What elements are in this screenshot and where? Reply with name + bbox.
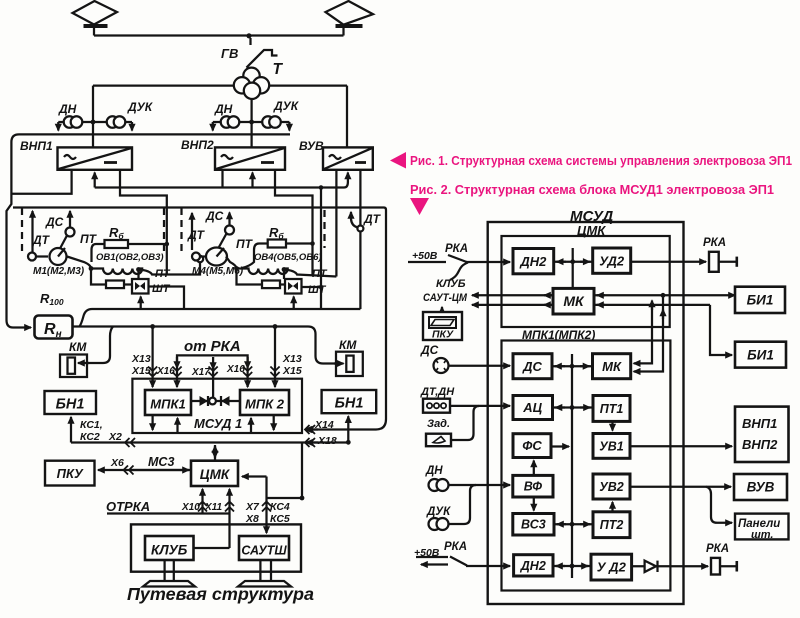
svg-text:ДТ: ДТ bbox=[363, 212, 382, 226]
svg-text:МПК 2: МПК 2 bbox=[245, 397, 285, 412]
svg-text:М4(М5,М6): М4(М5,М6) bbox=[192, 266, 244, 277]
svg-text:Рис. 1. Структурная схема сист: Рис. 1. Структурная схема системы управл… bbox=[410, 154, 792, 168]
svg-text:У Д2: У Д2 bbox=[597, 559, 627, 574]
svg-text:Х7: Х7 bbox=[245, 501, 260, 513]
svg-text:ВНП1: ВНП1 bbox=[20, 139, 53, 153]
svg-text:Rб: Rб bbox=[109, 225, 124, 241]
svg-text:САУТШ: САУТШ bbox=[241, 544, 287, 558]
svg-text:ДУК: ДУК bbox=[426, 506, 451, 518]
svg-text:М1(М2,М3): М1(М2,М3) bbox=[33, 266, 85, 277]
svg-text:ПТ2: ПТ2 bbox=[600, 518, 624, 532]
svg-text:Х18: Х18 bbox=[317, 435, 337, 447]
svg-text:ДН2: ДН2 bbox=[519, 254, 547, 269]
svg-text:ШТ: ШТ bbox=[152, 283, 171, 295]
svg-text:УВ1: УВ1 bbox=[599, 439, 623, 453]
svg-text:ДС: ДС bbox=[420, 343, 439, 357]
svg-text:КС1,: КС1, bbox=[80, 419, 103, 431]
svg-text:Зад.: Зад. bbox=[427, 418, 450, 430]
svg-text:Х8: Х8 bbox=[245, 513, 259, 525]
svg-text:ПТ: ПТ bbox=[236, 237, 254, 251]
svg-text:Х2: Х2 bbox=[108, 431, 122, 443]
svg-text:Х10: Х10 bbox=[181, 502, 200, 513]
svg-text:КЛУБ: КЛУБ bbox=[436, 278, 466, 290]
svg-text:БИ1: БИ1 bbox=[747, 348, 774, 363]
svg-text:ПКУ: ПКУ bbox=[57, 466, 84, 481]
svg-text:ДС: ДС bbox=[205, 209, 224, 223]
svg-text:Т: Т bbox=[273, 61, 284, 78]
svg-text:ПТ1: ПТ1 bbox=[600, 402, 624, 416]
svg-text:ОВ1(ОВ2,ОВ3): ОВ1(ОВ2,ОВ3) bbox=[96, 252, 164, 263]
svg-text:ДУК: ДУК bbox=[127, 100, 154, 114]
svg-text:ДН2: ДН2 bbox=[520, 559, 546, 573]
svg-text:РКА: РКА bbox=[706, 543, 729, 555]
svg-text:ВУВ: ВУВ bbox=[299, 139, 324, 153]
svg-text:КМ: КМ bbox=[69, 340, 87, 354]
svg-text:ЦМК: ЦМК bbox=[200, 467, 231, 482]
svg-text:Х15: Х15 bbox=[282, 365, 302, 377]
svg-text:ДС: ДС bbox=[45, 215, 64, 229]
svg-text:КЛУБ: КЛУБ bbox=[151, 543, 188, 558]
svg-text:ВНП2: ВНП2 bbox=[181, 138, 214, 152]
svg-text:Rб: Rб bbox=[269, 225, 284, 241]
svg-text:ОВ4(ОВ5,ОВ6): ОВ4(ОВ5,ОВ6) bbox=[254, 252, 322, 263]
svg-text:ОТРКА: ОТРКА bbox=[106, 499, 150, 514]
svg-text:ФС: ФС bbox=[522, 438, 542, 453]
svg-text:КС2: КС2 bbox=[80, 431, 100, 443]
svg-text:ВНП1: ВНП1 bbox=[742, 416, 777, 431]
svg-text:Х13: Х13 bbox=[282, 353, 302, 365]
svg-text:ПКУ: ПКУ bbox=[432, 329, 454, 341]
svg-text:+50В: +50В bbox=[414, 547, 440, 559]
svg-text:КС4: КС4 bbox=[270, 501, 290, 513]
svg-text:Х6: Х6 bbox=[110, 457, 124, 469]
svg-text:Х16: Х16 bbox=[156, 366, 175, 377]
svg-text:БН1: БН1 bbox=[335, 396, 364, 412]
svg-text:ДН: ДН bbox=[425, 465, 443, 477]
svg-text:Рис. 2. Структурная схема блок: Рис. 2. Структурная схема блока МСУД1 эл… bbox=[410, 183, 774, 197]
svg-text:ГВ: ГВ bbox=[221, 46, 238, 61]
svg-text:ДТ: ДТ bbox=[32, 233, 51, 247]
svg-text:Х14: Х14 bbox=[314, 419, 334, 431]
svg-text:ПТ: ПТ bbox=[155, 268, 171, 280]
svg-text:РКА: РКА bbox=[445, 243, 468, 255]
svg-text:Х17: Х17 bbox=[191, 367, 210, 378]
svg-text:УД2: УД2 bbox=[599, 254, 625, 269]
svg-text:ВФ: ВФ bbox=[524, 480, 543, 494]
svg-text:МК: МК bbox=[563, 293, 585, 309]
svg-text:КС5: КС5 bbox=[270, 513, 290, 525]
svg-text:ВС3: ВС3 bbox=[521, 518, 546, 532]
svg-text:КМ: КМ bbox=[339, 338, 357, 352]
svg-text:шт.: шт. bbox=[751, 529, 773, 541]
svg-text:ДУК: ДУК bbox=[273, 99, 300, 113]
svg-text:Х11: Х11 bbox=[204, 502, 222, 513]
svg-text:ПТ: ПТ bbox=[80, 232, 98, 246]
svg-text:Х15: Х15 bbox=[131, 365, 151, 377]
svg-text:ДТ: ДТ bbox=[187, 228, 206, 242]
svg-text:Х13: Х13 bbox=[131, 353, 151, 365]
svg-text:МС3: МС3 bbox=[148, 455, 174, 469]
svg-text:R100: R100 bbox=[40, 291, 64, 307]
svg-text:ВУВ: ВУВ bbox=[747, 480, 775, 495]
svg-text:ЦМК: ЦМК bbox=[577, 223, 606, 238]
svg-text:УВ2: УВ2 bbox=[599, 480, 623, 494]
svg-text:ДН: ДН bbox=[58, 102, 77, 116]
svg-text:Путевая структура: Путевая структура bbox=[127, 584, 314, 604]
svg-text:МПК1(МПК2): МПК1(МПК2) bbox=[522, 328, 595, 342]
svg-text:МК: МК bbox=[602, 359, 622, 374]
svg-text:МПК1: МПК1 bbox=[150, 397, 185, 412]
svg-text:+50В: +50В bbox=[412, 250, 438, 262]
svg-text:ПТ: ПТ bbox=[312, 268, 328, 280]
svg-text:ШТ: ШТ bbox=[308, 284, 327, 296]
svg-text:САУТ-ЦМ: САУТ-ЦМ bbox=[423, 292, 468, 304]
svg-text:АЦ: АЦ bbox=[522, 400, 542, 415]
svg-text:ДТ,ДН: ДТ,ДН bbox=[420, 386, 455, 398]
svg-text:БН1: БН1 bbox=[56, 397, 85, 413]
svg-text:от РКА: от РКА bbox=[184, 338, 241, 355]
svg-text:Х16: Х16 bbox=[226, 364, 245, 375]
svg-text:ДН: ДН bbox=[214, 102, 233, 116]
svg-text:РКА: РКА bbox=[444, 541, 467, 553]
svg-text:РКА: РКА bbox=[703, 237, 726, 249]
svg-text:ВНП2: ВНП2 bbox=[742, 437, 778, 452]
svg-text:ДС: ДС bbox=[522, 359, 542, 374]
svg-text:БИ1: БИ1 bbox=[747, 293, 774, 308]
svg-text:МСУД 1: МСУД 1 bbox=[194, 416, 242, 431]
